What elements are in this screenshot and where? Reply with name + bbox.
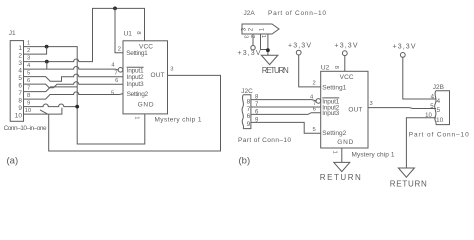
svg-text:+3,3V: +3,3V [393,43,416,50]
svg-text:9: 9 [247,121,251,128]
svg-text:Input3: Input3 [322,110,339,117]
svg-text:J1: J1 [9,30,16,37]
J2C pin names inside [247,98,251,128]
wire OUT feedback loop: U1.3 right, down, left, up to J1.10 row [49,75,221,151]
wire J2C.6 to U2 Input3 [251,113,321,115]
svg-text:2: 2 [18,52,22,59]
U2 Input1 inversion bubble [316,99,321,104]
wire J1.8 to U1 Setting2 (diagonal) [24,92,124,99]
svg-text:2: 2 [27,48,30,54]
svg-text:5: 5 [111,91,114,97]
svg-text:1: 1 [27,40,30,46]
U2 pin numbers [310,80,316,133]
svg-text:5: 5 [18,75,22,82]
wire J1.6 into bus (diagonal) [24,82,124,88]
svg-text:10: 10 [15,112,23,119]
svg-text:5: 5 [27,70,30,76]
wire J1.10 row and riser [24,108,62,115]
wire net A: J1.1 to vertical bus, down to GND loop of U1 [24,47,145,144]
svg-text:7: 7 [247,106,251,113]
wire J1.2 riser to dot [24,47,47,55]
junction dot J1.9/GND bus [75,105,79,109]
J1 pin numbers outside [25,40,31,114]
svg-text:9: 9 [18,105,22,112]
svg-text:5: 5 [312,127,315,133]
svg-text:Setting1: Setting1 [126,50,148,57]
junction dot on J1.1 row at x46.6 [45,45,49,49]
svg-text:OUT: OUT [348,107,362,114]
wire +3,3V to U2 VCC pin 8 [344,56,346,72]
svg-text:8: 8 [333,66,339,69]
wire J1.5 to U1 Input3 (diagonal down) [24,74,124,81]
svg-text:1: 1 [18,45,22,52]
wire J2B pin 10 to ground [406,118,436,168]
connector J2A body (flag shape) [242,24,279,34]
U1 pin numbers [111,47,121,97]
svg-text:GND: GND [138,101,154,108]
svg-text:6: 6 [18,82,22,89]
svg-text:2: 2 [312,80,315,86]
J2A pin 2 wire [261,34,268,50]
svg-text:GND: GND [337,139,353,146]
ground RETURN at J2A [261,55,278,64]
svg-text:Input3: Input3 [127,81,144,88]
svg-text:RETURN: RETURN [390,180,427,189]
svg-text:6: 6 [247,113,251,120]
svg-text:4: 4 [437,98,441,105]
svg-text:Setting2: Setting2 [322,130,346,137]
J1 pin names 1-10 inside [15,45,23,120]
wire net B: J1.3 row, hop, riser to top rail, VCC pin 8 of U1 [24,8,145,61]
wire +3,3V to U2 Setting1 pin 2 [299,55,321,87]
svg-text:OUT: OUT [151,72,165,79]
ground RETURN at U2 GND [334,162,350,171]
svg-text:8: 8 [27,93,30,99]
svg-text:10: 10 [436,117,444,124]
svg-text:10: 10 [25,108,31,114]
svg-text:Part of Conn–10: Part of Conn–10 [409,131,469,138]
svg-text:+3,3V: +3,3V [335,43,358,50]
svg-text:7: 7 [114,71,117,77]
svg-text:J2C: J2C [241,88,253,95]
svg-text:1: 1 [260,35,266,38]
svg-text:7: 7 [27,85,30,91]
power symbol +3,3V at J2A (flipped) [251,46,255,50]
svg-text:+3,3V: +3,3V [238,50,261,57]
wire J2C.7 to U2 Input2 [251,106,321,108]
wire riser J1.3 to J1.4 row [46,62,48,70]
chip U2 body [321,71,368,148]
svg-text:2: 2 [249,35,255,38]
svg-text:1: 1 [134,116,140,119]
svg-text:Conn–10–in–one: Conn–10–in–one [4,125,47,132]
svg-text:J2B: J2B [433,84,444,91]
wire J2C.9 to U2 Setting2 [251,122,321,133]
wire J1.7 to U1 Input2 (diagonal up, riser) [24,87,78,92]
J2A pin 3 wire to +3,3V [252,34,254,46]
svg-text:(a): (a) [7,156,19,167]
svg-text:9: 9 [27,100,30,106]
svg-text:8: 8 [135,31,141,34]
svg-text:+3,3V: +3,3V [288,43,311,50]
svg-text:Mystery chip 1: Mystery chip 1 [352,152,395,159]
junction dot on J1.3 row at x46.8 [45,60,49,64]
svg-text:U1: U1 [124,31,133,38]
svg-text:1: 1 [331,151,337,154]
svg-text:Part of Conn–10: Part of Conn–10 [268,10,326,17]
junction dot J2A return [266,48,270,52]
svg-text:3: 3 [18,60,22,67]
wire top rail branch down to U1 Setting1 pin 2 [115,8,123,52]
wire stub diagonal near J1.10 [40,110,48,114]
J2B pin numbers [425,94,435,119]
svg-text:4: 4 [18,67,22,74]
U1 Input1 inversion bubble [118,68,123,73]
J2A pin 1 wire to ground [267,34,269,55]
svg-text:Setting2: Setting2 [127,91,149,98]
svg-text:6: 6 [27,78,30,84]
svg-text:Part of Conn–10: Part of Conn–10 [238,137,291,144]
connector J2B body [435,91,450,125]
svg-text:Setting1: Setting1 [322,84,346,91]
svg-text:7: 7 [18,90,22,97]
svg-text:3: 3 [243,35,249,38]
ground RETURN at J2B [398,168,414,177]
svg-text:6: 6 [115,78,118,84]
wire U2 GND pin 1 down [341,148,343,162]
svg-text:Mystery chip 1: Mystery chip 1 [155,117,202,124]
svg-text:3: 3 [170,66,173,72]
wire U2 OUT to J2B pin 5 [368,107,436,110]
svg-text:(b): (b) [239,156,251,167]
junction dot on top rail [113,6,117,10]
wire J1.4 row to U1 Input1 bubble [24,67,119,70]
wire J2C.8 to U2 Input1 bubble [251,100,316,101]
svg-text:5: 5 [437,107,441,114]
svg-text:J2A: J2A [244,10,256,17]
wire +3,3V to J2B pin 4 [403,57,436,99]
svg-text:8: 8 [18,97,22,104]
svg-text:6: 6 [313,107,316,113]
connector J1 body [10,41,23,122]
wire J1.9 row with hops, to junction on GND bus [24,104,78,107]
svg-text:3: 3 [27,55,30,61]
svg-text:RETURN: RETURN [262,66,289,75]
svg-text:U2: U2 [321,64,330,71]
connector J2C body [242,95,251,129]
svg-text:3: 3 [370,101,373,107]
svg-text:2: 2 [118,47,121,53]
svg-text:8: 8 [247,98,251,105]
svg-text:VCC: VCC [340,74,354,81]
op-amp style chip U1 body [123,41,168,114]
